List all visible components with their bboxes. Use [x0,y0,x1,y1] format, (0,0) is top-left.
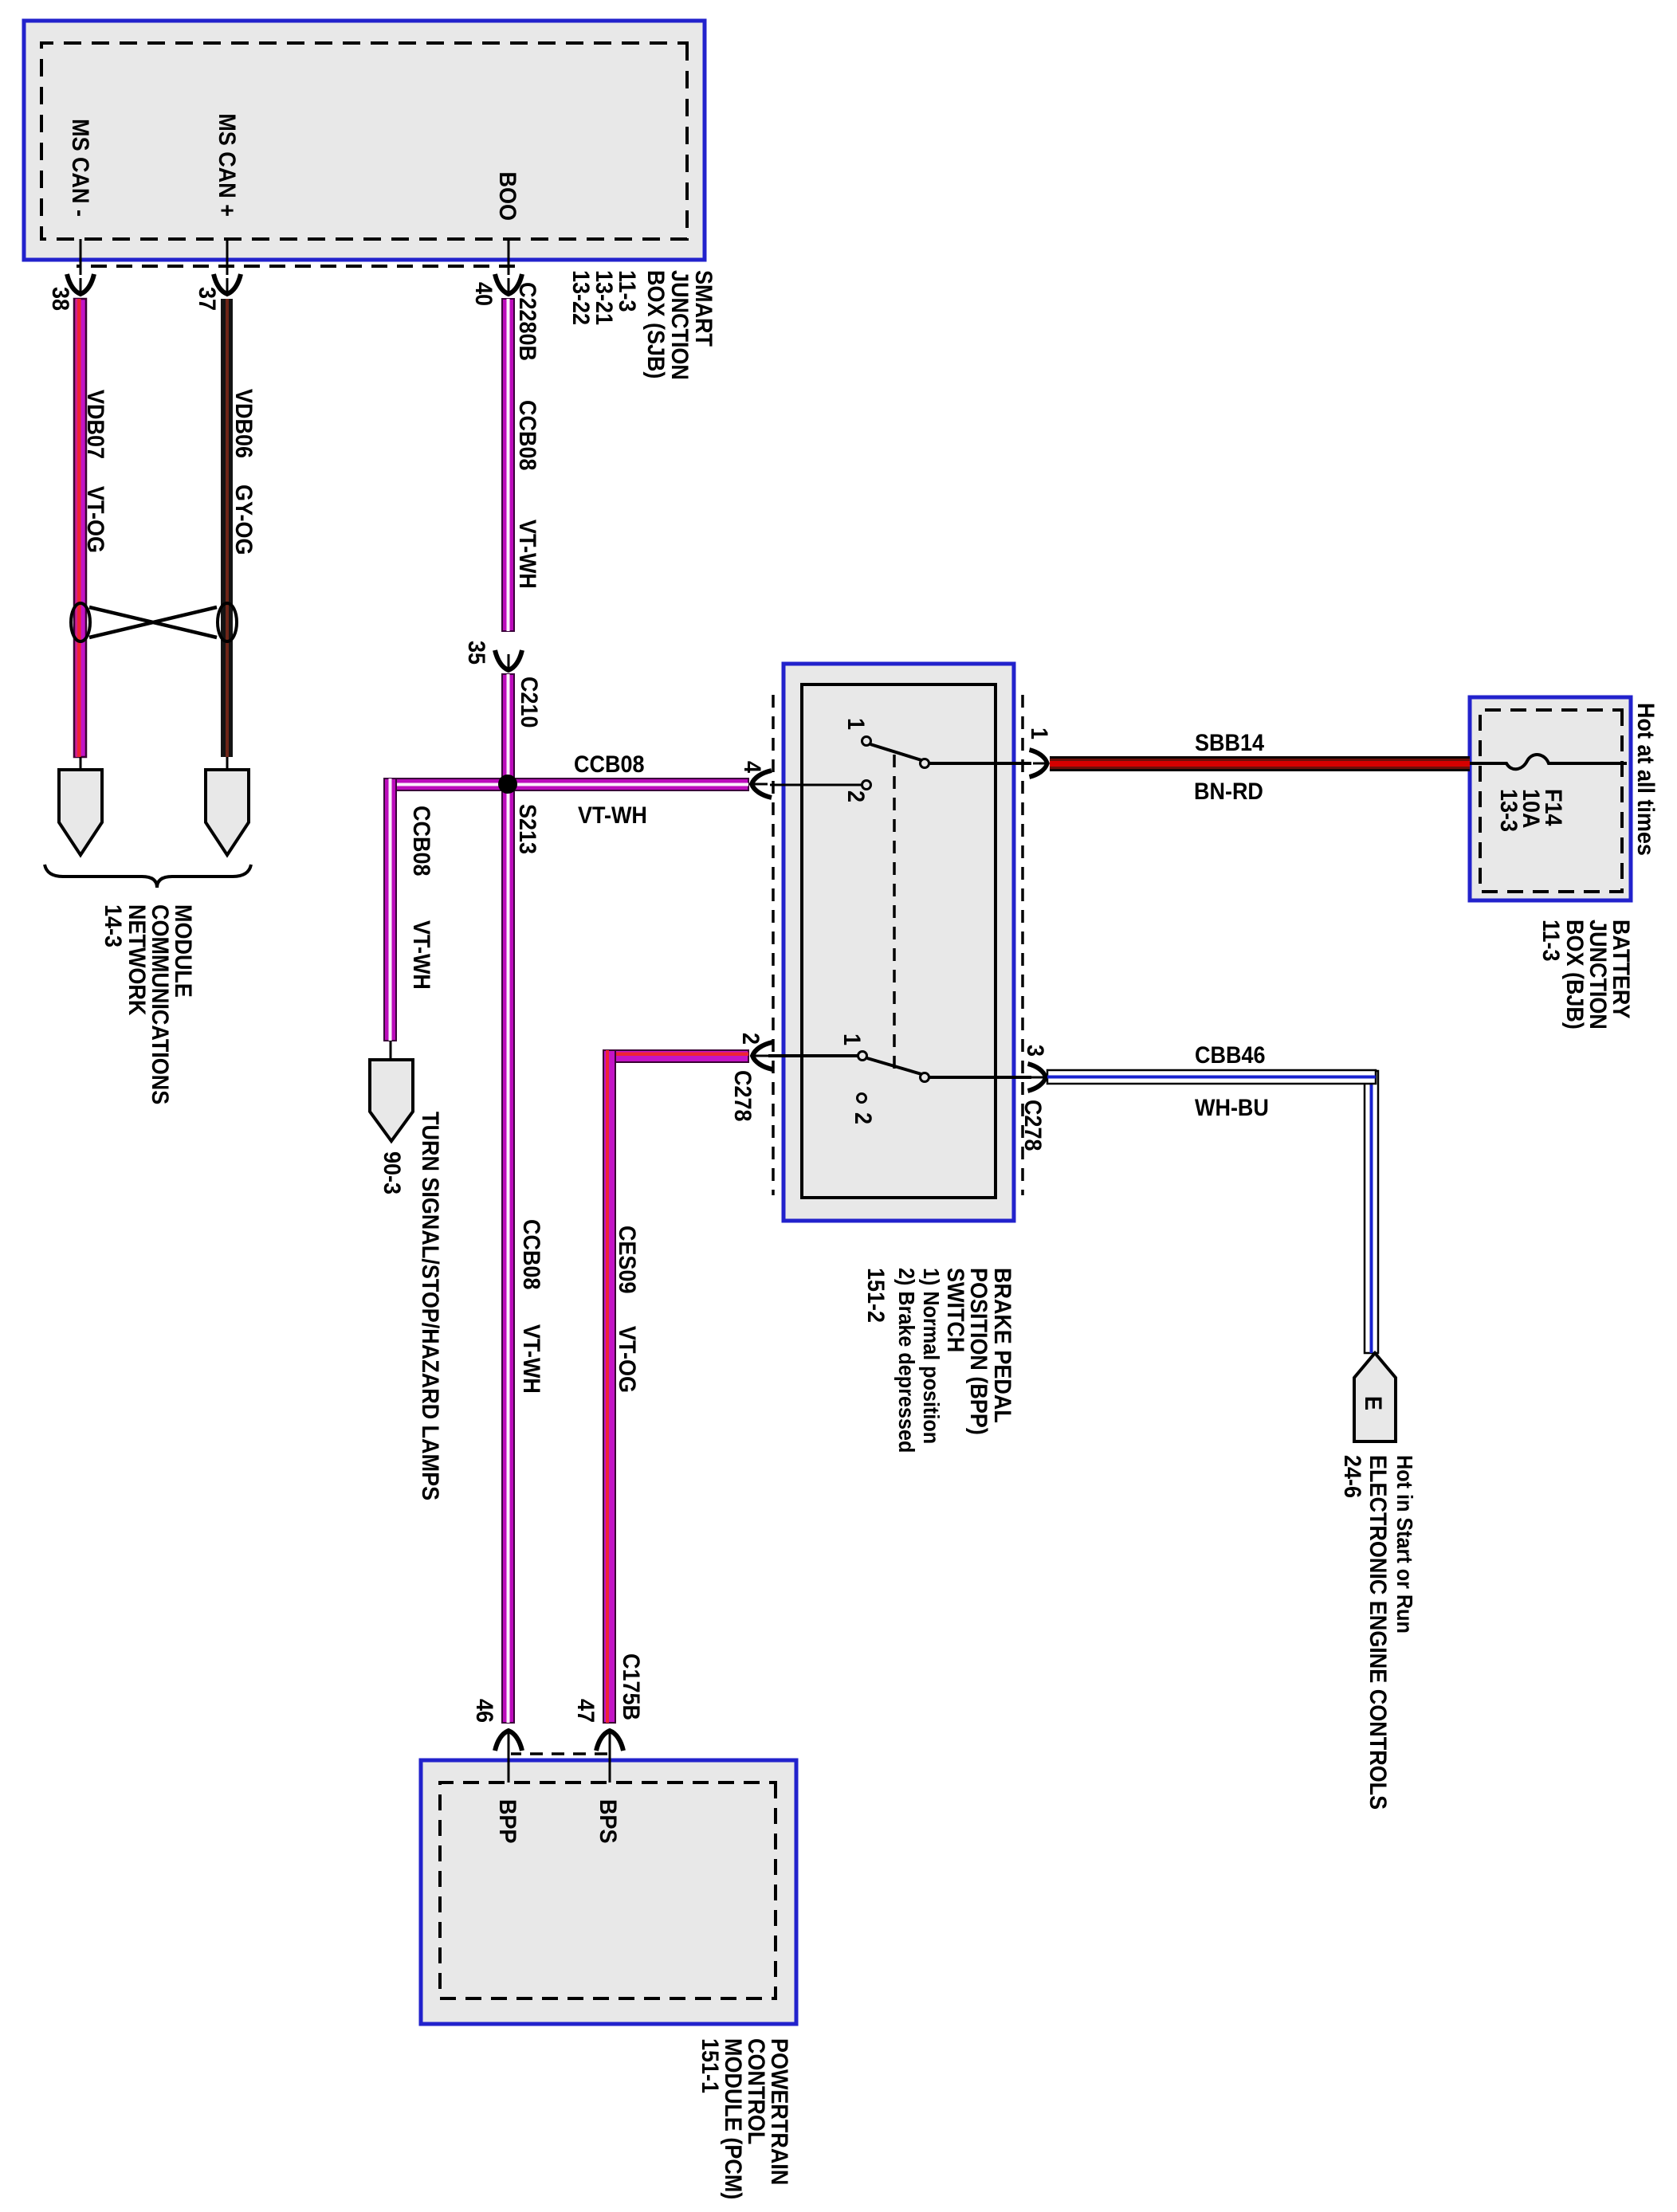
svg-text:14-3: 14-3 [100,904,127,947]
PCM pin 47 arrow [596,1731,623,1783]
wire CCB08 VT-WH segment B (C210 to PCM) [502,674,514,1723]
pin 47 label [572,1699,599,1723]
twisted pair symbol [71,603,237,641]
svg-text:NETWORK: NETWORK [124,904,151,1016]
wire label CCB08 VT-WH (long run) [518,1219,545,1394]
svg-text:CCB08: CCB08 [408,806,435,876]
wire label VDB07 VT-OG [82,390,109,553]
wire label CES09 VT-OG [614,1226,641,1393]
label C2280B CCB08 VT-WH [514,282,541,589]
svg-text:ELECTRONIC ENGINE CONTROLS: ELECTRONIC ENGINE CONTROLS [1365,1455,1392,1810]
pin 35 label [463,641,490,665]
connector C278 dashed line upper [1021,695,1024,1195]
wire CBB46 WH-BU horizontal [1365,1071,1378,1353]
svg-text:2: 2 [842,790,870,802]
svg-text:WH-BU: WH-BU [1195,1095,1269,1122]
fuse F14 [1470,755,1627,769]
svg-text:BOO: BOO [494,172,521,221]
svg-text:Hot in Start or Run: Hot in Start or Run [1392,1455,1418,1634]
SJB pin label MS CAN - [67,119,94,217]
svg-text:C278: C278 [729,1070,756,1121]
svg-text:4: 4 [739,761,766,773]
pin 1 arrow (SBB14) [1030,750,1048,777]
pin 4 label [739,761,766,773]
svg-text:VT-OG: VT-OG [614,1326,641,1393]
C278 label at pin 2 [729,1070,756,1121]
svg-text:37: 37 [194,287,221,311]
wire VDB06 GY-OG (MS CAN +) [221,299,233,757]
line terminal 1 to pin 2 [768,1054,858,1057]
svg-text:CBB46: CBB46 [1195,1042,1265,1069]
svg-text:C210: C210 [516,677,543,728]
wire CBB46 WH-BU vertical [1047,1070,1376,1084]
S213 label [514,804,541,854]
label MODULE COMMUNICATIONS NETWORK 14-3 [100,904,197,1104]
rotated label CBB46 [1195,1042,1265,1069]
svg-text:VT-WH: VT-WH [518,1324,545,1394]
SJB pin label MS CAN + [214,113,241,217]
PCM label block [697,2038,793,2199]
lower switch terminal 2 [858,1094,866,1103]
svg-text:VDB07: VDB07 [82,390,109,459]
PCM pin name BPS [595,1799,622,1843]
rotated label CCB08 (branch) [574,751,644,779]
pin 46 label [471,1699,498,1723]
svg-text:CCB08: CCB08 [574,751,644,779]
upper switch blade [870,744,921,760]
brake pedal position switch box [784,664,1014,1221]
svg-text:3: 3 [1022,1045,1049,1057]
upper switch common terminal [921,759,929,768]
label Hot in Start or Run / ELECTRONIC ENGINE CONTROLS / 24-6 [1339,1455,1418,1810]
rotated label WH-BU [1195,1095,1269,1122]
svg-text:47: 47 [572,1699,599,1723]
svg-text:SBB14: SBB14 [1195,730,1264,757]
lower switch label 1 [839,1033,866,1045]
svg-text:TURN SIGNAL/STOP/HAZARD LAMPS: TURN SIGNAL/STOP/HAZARD LAMPS [417,1112,444,1500]
svg-text:35: 35 [463,641,490,665]
PCM pin 46 arrow [495,1731,522,1783]
svg-text:CCB08: CCB08 [514,400,541,470]
svg-text:GY-OG: GY-OG [230,484,257,555]
wire label CCB08 VT-WH (turn signal branch) [408,806,435,990]
svg-text:E: E [1360,1396,1387,1410]
lower switch common line (to pin 3) [929,1076,1031,1079]
lower switch common terminal [921,1073,929,1082]
smart junction box (SJB) [24,21,705,260]
svg-text:13-3: 13-3 [1495,789,1522,832]
SJB label block [568,270,717,380]
svg-text:24-6: 24-6 [1339,1455,1366,1498]
svg-text:90-3: 90-3 [379,1151,406,1194]
wire CES09 VT-OG vertical (BPP pin 2 down) [611,1050,748,1062]
svg-text:VT-WH: VT-WH [408,920,435,990]
svg-text:JUNCTION: JUNCTION [666,270,693,380]
svg-text:SWITCH: SWITCH [942,1268,969,1352]
svg-text:2: 2 [850,1112,877,1124]
turn signal connector pentagon [370,1041,413,1141]
connector C175B dashed line [511,1752,607,1755]
svg-text:BOX (BJB): BOX (BJB) [1561,920,1589,1030]
connector pentagon wire 38 [59,757,102,855]
svg-text:2) Brake depressed: 2) Brake depressed [894,1268,920,1453]
SJB pin stub 38 [67,239,94,294]
BJB label block [1538,920,1635,1030]
svg-text:CES09: CES09 [614,1226,641,1293]
svg-text:BPS: BPS [595,1799,622,1843]
connector C278 dashed line lower [772,695,775,1195]
PCM pin name BPP [494,1799,521,1843]
svg-text:2: 2 [737,1033,764,1045]
rotated label SBB14 [1195,730,1264,757]
pin number 38 [47,287,74,311]
svg-text:SMART: SMART [690,270,717,347]
rotated label VT-WH (branch) [578,802,647,829]
svg-text:151-2: 151-2 [862,1268,890,1323]
wire CES09 VT-OG horizontal (to PCM pin 47) [603,1050,615,1723]
switch mechanical link dashed [893,755,896,1069]
C278 label at pin 3 [1019,1100,1047,1151]
svg-text:VT-WH: VT-WH [514,520,541,589]
svg-text:VT-OG: VT-OG [82,486,109,553]
powertrain control module (PCM) [421,1760,796,2024]
svg-text:BN-RD: BN-RD [1194,779,1263,806]
connector C210 arrow [495,650,522,670]
wire VDB07 VT-OG (MS CAN -) [74,299,86,757]
svg-text:MS CAN -: MS CAN - [67,119,94,217]
pin 2 label [737,1033,764,1045]
SJB pin label BOO [494,172,521,221]
battery junction box (BJB) [1470,697,1631,900]
connector E pentagon [1354,1353,1396,1441]
svg-text:S213: S213 [514,804,541,854]
svg-text:BRAKE PEDAL: BRAKE PEDAL [989,1268,1016,1423]
svg-text:40: 40 [470,282,497,306]
BPP label block [862,1268,1016,1453]
lower switch terminal 1 [858,1052,867,1061]
fuse label F14 10A 13-3 [1495,789,1567,832]
svg-text:13-22: 13-22 [568,270,595,325]
SJB pin stub 37 [214,239,241,294]
pin number 37 [194,287,221,311]
connector pentagon wire 37 [206,757,249,855]
line terminal 2 to pin 4 [770,784,862,786]
pin 2 arrow (CES09) [752,1042,772,1069]
svg-text:1) Normal position: 1) Normal position [919,1268,945,1444]
svg-text:VT-WH: VT-WH [578,802,647,829]
wire CCB08 branch vertical (S213 up to BPP pin 4, down to corner) [391,779,748,790]
svg-text:BPP: BPP [494,1799,521,1843]
svg-text:C175B: C175B [618,1653,645,1720]
upper switch label 2 [842,790,870,802]
wire label VDB06 GY-OG [230,389,257,555]
svg-text:11-3: 11-3 [1538,920,1565,962]
wire CCB08 VT-WH segment A (SJB to C210) [502,299,514,631]
svg-text:C278: C278 [1019,1100,1047,1151]
C175B label [618,1653,645,1720]
svg-text:1: 1 [839,1033,866,1045]
upper switch terminal 1 [862,737,871,746]
svg-text:CCB08: CCB08 [518,1219,545,1289]
connector C2280B dashed line [77,265,515,268]
svg-text:151-1: 151-1 [697,2038,724,2093]
upper switch label 1 [842,718,870,730]
pin 3 arrow [1028,1064,1047,1091]
upper switch common line (to pin 1) [929,762,1031,765]
upper switch terminal 2 [862,781,871,790]
C210 label [516,677,543,728]
arrow at BPP pin 4 [752,771,772,798]
splice S213 [498,775,517,794]
lower switch label 2 [850,1112,877,1124]
svg-text:38: 38 [47,287,74,311]
svg-text:BOX (SJB): BOX (SJB) [642,270,670,378]
svg-text:46: 46 [471,1699,498,1723]
svg-text:1: 1 [1026,728,1053,739]
pin 3 label [1022,1045,1049,1057]
label Hot at all times [1632,703,1659,856]
rotated label BN-RD [1194,779,1263,806]
lower switch blade [867,1058,921,1074]
wire CCB08 turn-signal branch horizontal [384,779,396,1041]
svg-text:Hot at all times: Hot at all times [1632,703,1659,856]
svg-text:VDB06: VDB06 [230,389,257,458]
wire SBB14 BN-RD [1050,756,1470,771]
pin number 40 [470,282,497,306]
svg-text:1: 1 [842,718,870,730]
pin 1 label [1026,728,1053,739]
svg-text:C2280B: C2280B [514,282,541,361]
network brace [45,865,251,888]
SJB pin stub 40 (BOO) [495,239,522,294]
svg-text:MS CAN +: MS CAN + [214,113,241,217]
label TURN SIGNAL/STOP/HAZARD LAMPS 90-3 [379,1112,444,1500]
